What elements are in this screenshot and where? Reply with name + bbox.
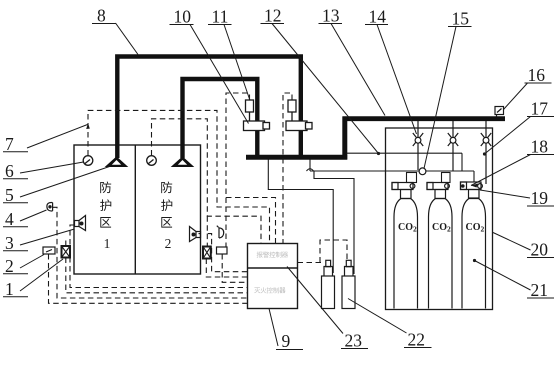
leader 8	[116, 23, 139, 55]
svg-text:CO2: CO2	[398, 222, 417, 234]
svg-text:20: 20	[531, 240, 549, 260]
protection zone boxes	[74, 145, 201, 274]
leader lines	[20, 23, 531, 346]
leader 14	[377, 25, 417, 135]
nozzle 1	[106, 157, 127, 167]
horn 2	[190, 227, 201, 242]
zone 1 chinese text	[100, 182, 111, 228]
check valve pipe 2	[452, 121, 454, 171]
svg-text:16: 16	[528, 65, 546, 85]
svg-text:15: 15	[452, 9, 470, 29]
cylinder 1 head connector	[407, 173, 417, 183]
svg-text:1: 1	[104, 236, 111, 251]
check valve pipe 3	[485, 121, 487, 184]
leader 5	[20, 167, 110, 198]
alarm bell 4	[47, 203, 53, 211]
svg-text:21: 21	[531, 280, 549, 300]
pilot bottle A	[322, 260, 335, 308]
check valve 2	[448, 133, 458, 146]
svg-text:3: 3	[5, 233, 14, 253]
svg-text:13: 13	[322, 6, 340, 26]
smoke detector zone2	[147, 156, 157, 166]
manual station 2	[43, 247, 55, 254]
callpoint1 wire	[66, 240, 248, 293]
zone 2 chinese text	[161, 182, 172, 228]
svg-text:10: 10	[174, 7, 192, 27]
arrow 7	[86, 123, 90, 129]
cylinder 2	[427, 183, 452, 309]
svg-text:2: 2	[165, 236, 172, 251]
bell-rect-right wire	[222, 254, 247, 282]
svg-text:12: 12	[264, 6, 282, 26]
leader 7	[27, 125, 88, 149]
pilot bottle B wire	[320, 240, 347, 263]
leader 6	[20, 162, 84, 173]
pilot bottle A wire	[298, 262, 325, 264]
arrow 18	[471, 184, 478, 188]
selector valve 2	[286, 121, 312, 131]
pipe zone1	[117, 57, 300, 159]
leader 12	[272, 24, 379, 154]
smoke detector zone1	[83, 156, 93, 166]
leader dots	[377, 152, 486, 262]
riser step pipe	[342, 117, 347, 160]
leader 18	[471, 155, 531, 186]
svg-text:6: 6	[5, 161, 14, 181]
callpoint-right wire	[206, 216, 247, 277]
selector manifold pipe	[246, 155, 347, 160]
leader 20	[493, 233, 531, 251]
check valve 3	[481, 133, 491, 146]
pilot line	[307, 153, 475, 274]
leader 11	[224, 25, 250, 101]
leader 4	[20, 210, 47, 221]
cylinder 3	[461, 182, 486, 309]
station2 wire	[49, 254, 248, 303]
fire controller text	[254, 287, 285, 293]
cylinder 1	[392, 183, 418, 309]
pipe zone2	[183, 79, 258, 158]
selector valve 1	[244, 121, 270, 131]
leader 3	[20, 229, 75, 245]
svg-text:11: 11	[212, 7, 229, 27]
alarm bell right	[217, 226, 224, 238]
leader 13	[331, 24, 385, 116]
check valve 1	[413, 133, 423, 146]
pilot port circle 15	[419, 168, 426, 175]
horn 1	[75, 216, 86, 231]
manual station right	[217, 247, 228, 254]
svg-text:9: 9	[282, 331, 291, 351]
svg-text:1: 1	[5, 279, 14, 299]
pressure switch 16	[495, 107, 504, 118]
svg-text:14: 14	[369, 7, 387, 27]
svg-text:22: 22	[408, 330, 426, 350]
wiring dashed	[49, 93, 348, 303]
horn2 wire	[199, 233, 202, 235]
cylinder 2 head connector	[442, 173, 451, 183]
leader 21	[475, 261, 531, 291]
leader 16	[504, 83, 528, 110]
solenoid2 wire	[283, 93, 292, 244]
leader 17	[485, 117, 531, 155]
leader 9	[269, 309, 278, 347]
svg-text:17: 17	[531, 99, 549, 119]
svg-text:19: 19	[531, 188, 549, 208]
leader 15	[424, 27, 456, 169]
solenoid on valve 2	[288, 100, 296, 121]
svg-text:CO2: CO2	[432, 222, 451, 234]
svg-text:CO2: CO2	[466, 222, 485, 234]
leader 23	[287, 267, 343, 334]
leader 19	[480, 190, 530, 198]
leader 1	[20, 259, 63, 291]
svg-text:18: 18	[531, 137, 549, 157]
break-glass right	[203, 247, 211, 259]
bell4 wire	[53, 207, 248, 298]
alarm controller text	[257, 252, 288, 258]
svg-text:5: 5	[5, 185, 14, 205]
check valve pipe 1	[417, 121, 419, 170]
horn1 wire	[70, 225, 248, 288]
break-glass 1	[62, 246, 71, 258]
leader 2	[20, 255, 44, 269]
leader 10	[190, 25, 249, 124]
svg-text:7: 7	[5, 134, 14, 154]
svg-text:23: 23	[345, 331, 363, 351]
nozzle 2	[172, 157, 193, 167]
svg-text:2: 2	[5, 256, 14, 276]
solenoid 11 on valve 1	[246, 100, 254, 121]
detector2 loop wire	[152, 119, 262, 244]
cylinder frame	[386, 128, 493, 310]
detector1 loop wire	[88, 110, 270, 243]
solenoid1 wire	[226, 93, 276, 247]
pilot bottle B	[342, 260, 355, 308]
pipe to pilot bottle A	[268, 160, 333, 274]
svg-text:4: 4	[5, 209, 14, 229]
leader 22	[348, 299, 407, 334]
main manifold pipe	[343, 116, 506, 121]
svg-text:8: 8	[97, 6, 106, 26]
controller box	[248, 244, 298, 309]
